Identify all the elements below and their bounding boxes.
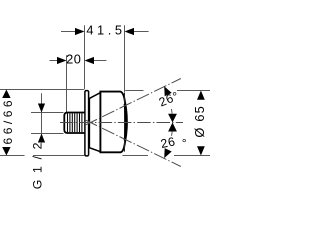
svg-text:G1/2: G1/2: [30, 136, 44, 189]
angular dimension arc stub lower: [171, 131, 174, 136]
dimension 41.5 left arrow: [61, 31, 75, 33]
G1/2 bottom arrow: [38, 134, 45, 143]
diameter 65 top extension line: [125, 90, 143, 92]
thread stub G1/2 body: [64, 113, 85, 134]
lower 26 deg arrow at diagonal: [164, 148, 172, 158]
main body with spray face: [100, 92, 127, 153]
dimension 41.5 extension line right (nozzle face): [124, 25, 126, 92]
66/66 top arrow: [2, 90, 10, 99]
G1/2 dimension line: [41, 93, 43, 143]
svg-text:Ø 65: Ø 65: [192, 105, 207, 138]
centerline (dash-dot): [60, 122, 183, 124]
G1/2 top arrow: [38, 104, 45, 113]
66/66 bottom extension line (gap for G1/2 text): [0, 155, 25, 157]
dimension 20 extension line left (thread end): [66, 55, 68, 112]
66/66 bottom arrow: [2, 147, 10, 156]
svg-text:41.5: 41.5: [86, 23, 125, 38]
G1/2 top extension line: [31, 112, 64, 114]
diameter 65 bottom extension line: [123, 155, 149, 157]
svg-text:66/66: 66/66: [1, 97, 15, 145]
angular dimension arc stub upper: [170, 109, 173, 114]
dimension 41.5 extension line left (wall plane): [84, 25, 86, 89]
nozzle face rim line: [124, 93, 126, 152]
svg-text:20: 20: [66, 51, 81, 66]
66/66 top extension line: [0, 89, 84, 91]
lower 26 deg arrow at centerline (bowtie bottom): [168, 123, 177, 132]
upper 26 deg spray diagonal (dash-dot): [85, 79, 181, 126]
dimension 41.5 right arrow: [134, 31, 149, 33]
nozzle face inner arc: [124, 104, 125, 140]
cone housing: [89, 93, 100, 152]
diameter 65 bottom arrow: [197, 146, 205, 155]
dimension 20 right arrow: [94, 60, 107, 62]
upper 26 deg arrow at centerline (bowtie top): [168, 114, 177, 123]
G1/2 bottom extension line: [31, 133, 64, 135]
diameter 65 top arrow: [197, 91, 205, 100]
thread hatching: [68, 113, 82, 132]
dimension 20 left arrow: [50, 60, 58, 62]
svg-text:°: °: [182, 136, 187, 150]
flange (wall plate, edge view): [85, 91, 89, 156]
upper 26 deg arrow at diagonal: [164, 86, 172, 96]
lower 26 deg spray diagonal (dash-dot): [85, 120, 181, 167]
